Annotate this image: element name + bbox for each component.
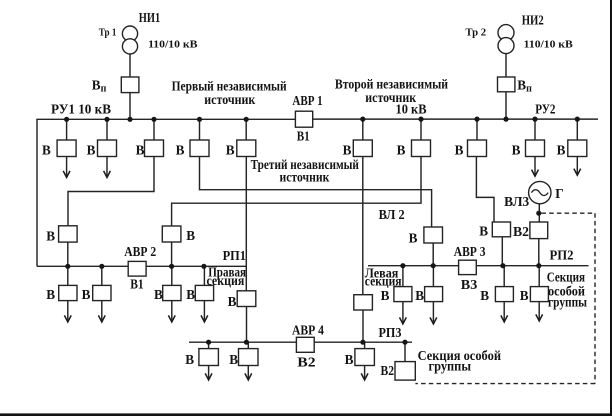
- node dot РП2 feeder1: [400, 263, 405, 268]
- svg-text:Вп: Вп: [92, 78, 107, 95]
- wire РП3 feeder 2: [247, 342, 249, 379]
- node dot feeder1 РУ2: [360, 117, 365, 122]
- svg-text:110/10 кВ: 110/10 кВ: [148, 39, 198, 51]
- page bottom rule: [0, 413, 612, 416]
- svg-text:РП3: РП3: [379, 325, 402, 340]
- arrowhead feeder5 РУ2: [574, 169, 581, 176]
- wire generator Г to В2 breaker: [538, 204, 540, 222]
- bus РП1: [37, 265, 247, 267]
- wire transformer Тр1 to Вп1: [129, 54, 131, 77]
- bus РП3: [189, 341, 412, 343]
- svg-text:НИ2: НИ2: [522, 13, 544, 28]
- svg-text:В: В: [46, 229, 55, 244]
- node dot feeder1 РУ1: [64, 117, 69, 122]
- breaker В РП2 feeder4: [530, 287, 548, 302]
- svg-text:источник: источник: [204, 92, 255, 107]
- breaker В on line ВЛ1 above РП2: [424, 227, 443, 243]
- breaker В feeder2 РУ2: [412, 140, 431, 157]
- wire feeder 4 РУ2 outgoing: [534, 119, 536, 175]
- wire feeder 4 РУ1 to line ВЛ1 toward РП2: [200, 119, 432, 227]
- wire feeder 3 РУ1 down to link: [68, 119, 154, 226]
- svg-text:В: В: [479, 224, 488, 239]
- wire feeder 2 РУ1: [106, 119, 108, 140]
- svg-text:группы: группы: [548, 295, 587, 310]
- svg-text:В3: В3: [461, 277, 478, 292]
- bus РП2: [368, 265, 589, 267]
- node dot Вп2/РУ2: [503, 117, 508, 122]
- node dot РП1 supply right: [169, 264, 174, 269]
- svg-text:АВР 1: АВР 1: [292, 93, 322, 108]
- wire feeder 1 РУ1: [66, 119, 68, 140]
- breaker АВР2 (В1): [128, 261, 146, 276]
- wire through breaker to РП3 bus: [246, 307, 248, 343]
- generator sine symbol: [531, 190, 548, 196]
- transformer Тр2 (НИ2 110/10 кВ): [498, 25, 514, 41]
- breaker В feeder3 РУ2: [468, 140, 487, 157]
- dashed boundary bottom to В2 РП3: [415, 383, 595, 385]
- dashed boundary right side: [594, 213, 596, 383]
- breaker В between РП1 and РП3: [237, 291, 256, 307]
- svg-text:В: В: [512, 142, 521, 157]
- svg-text:Тр 1: Тр 1: [99, 27, 117, 39]
- breaker В РП3 feeder3: [355, 349, 375, 366]
- svg-text:10 кВ: 10 кВ: [396, 101, 427, 116]
- wire РП1 feeder 3: [171, 266, 173, 321]
- breaker В2 of generator line ВЛ3: [530, 222, 548, 239]
- svg-text:В: В: [381, 288, 390, 303]
- node dot feeder5 РУ2: [575, 117, 580, 122]
- svg-text:РУ2: РУ2: [535, 102, 556, 117]
- wire transformer Тр2 to Вп2: [505, 53, 507, 77]
- arrowhead РП1 feeder3: [168, 315, 175, 322]
- svg-text:110/10 кВ: 110/10 кВ: [524, 39, 574, 51]
- wire РП1 feeder 4: [203, 266, 205, 321]
- node dot Вп1/РУ1: [127, 117, 132, 122]
- breaker В feeder4 РУ1: [190, 140, 209, 157]
- breaker В feeder5 РУ2: [568, 140, 587, 157]
- svg-text:В: В: [455, 142, 464, 157]
- bus РУ2: [313, 118, 598, 120]
- wire feeder 3 РУ2 jog to breaker above РП2: [476, 119, 494, 222]
- svg-text:В: В: [176, 142, 185, 157]
- arrowhead РП1 feeder4: [201, 315, 208, 322]
- svg-text:В: В: [415, 288, 424, 303]
- wire breaker to РП2 bus: [501, 237, 503, 266]
- breaker В feeder1 РУ1: [57, 140, 76, 157]
- svg-text:секция: секция: [365, 273, 402, 288]
- svg-text:В2: В2: [513, 224, 529, 239]
- node dot РП3 special feeder: [402, 340, 407, 345]
- wire outgoing feeder 2 РУ1: [106, 157, 108, 177]
- svg-text:ВЛ3: ВЛ3: [504, 194, 529, 209]
- svg-text:В1: В1: [297, 128, 310, 143]
- svg-text:ВЛ 2: ВЛ 2: [379, 207, 405, 222]
- wire ВЛ1 breaker to РП2 bus: [432, 243, 434, 266]
- breaker В feeder2 РУ1: [98, 140, 117, 157]
- breaker В feeder4 РУ2: [526, 140, 545, 157]
- arrowhead feeder1 РУ1: [63, 171, 70, 178]
- wire РП3 feeder 3: [364, 342, 366, 379]
- wire feeder 1 РУ2 down to РП3: [362, 119, 364, 295]
- generator Г: [529, 181, 551, 203]
- svg-text:Тр 2: Тр 2: [465, 27, 486, 39]
- node dot feeder4 РУ1: [197, 117, 202, 122]
- arrowhead РП3 feeder1: [205, 373, 212, 380]
- arrowhead РП2 feeder3: [501, 315, 508, 322]
- breaker В РП2 feeder2: [425, 287, 443, 302]
- breaker Вп2: [498, 77, 515, 92]
- svg-text:В: В: [136, 142, 145, 157]
- wire РП1 feeder 2: [101, 266, 103, 321]
- svg-text:Секция: Секция: [547, 269, 585, 284]
- breaker В РП1 feeder3: [163, 285, 181, 300]
- node dot РП3 supply left: [244, 340, 249, 345]
- svg-text:АВР 3: АВР 3: [454, 244, 486, 259]
- svg-text:В: В: [228, 294, 237, 309]
- breaker В РП1 feeder1: [59, 285, 77, 300]
- wire В2 breaker to bus РП2: [538, 239, 540, 266]
- arrowhead feeder4 РУ2: [532, 170, 539, 177]
- breaker АВР4 (В2): [296, 337, 314, 352]
- wire lower breaker to РП3 bus: [362, 310, 364, 342]
- arrowhead РП2 feeder1: [400, 317, 407, 324]
- svg-text:источник: источник: [280, 169, 330, 184]
- svg-text:В: В: [480, 288, 489, 303]
- node dot feeder5 РУ1: [244, 117, 249, 122]
- breaker АВР1 (В1): [295, 111, 312, 127]
- breaker В РП3 feeder2: [239, 349, 259, 366]
- svg-text:В: В: [520, 288, 529, 303]
- node dot РП2 supply right: [500, 263, 505, 268]
- svg-text:В: В: [557, 142, 566, 157]
- svg-text:В2: В2: [381, 363, 395, 378]
- breaker Вп1: [121, 77, 139, 93]
- node dot feeder2 РУ2: [418, 117, 423, 122]
- node dot РП3 supply right: [360, 340, 365, 345]
- arrowhead РП2 feeder2: [430, 317, 437, 324]
- wire РП3 special-group feeder to В2: [404, 342, 406, 361]
- node dot РП1 feeder4: [201, 264, 206, 269]
- svg-text:В: В: [345, 352, 354, 367]
- wire Вп2 to bus РУ2: [505, 92, 507, 119]
- svg-text:В: В: [409, 230, 418, 245]
- arrowhead РП1 feeder1: [64, 315, 71, 322]
- wire РП2 feeder 1: [402, 266, 404, 323]
- breaker АВР3 (В3): [459, 260, 477, 274]
- breaker В РП1 feeder2: [93, 285, 111, 300]
- svg-text:В: В: [229, 352, 238, 367]
- arrowhead РП3 feeder3: [361, 373, 368, 380]
- svg-text:Г: Г: [555, 186, 563, 201]
- transformer Тр1 (НИ1 110/10 кВ): [122, 26, 137, 41]
- breaker В РП2 feeder1: [394, 287, 412, 302]
- svg-text:В: В: [397, 142, 406, 157]
- arrowhead РП3 feeder2: [245, 373, 252, 380]
- svg-text:В: В: [46, 287, 55, 302]
- node dot feeder3 РУ1: [151, 117, 156, 122]
- wire feeder 2 РУ2 to link toward РП1: [172, 119, 421, 226]
- breaker В above РП2 from РУ2 feeder3: [492, 222, 510, 237]
- svg-text:В: В: [82, 287, 91, 302]
- svg-text:РП2: РП2: [550, 248, 574, 263]
- svg-text:АВР 4: АВР 4: [292, 322, 324, 337]
- node dot feeder3 РУ2: [474, 117, 479, 122]
- node dot РП1 supply left: [65, 264, 70, 269]
- wire feeder 5 РУ2 outgoing: [576, 119, 578, 174]
- page right border: [610, 0, 612, 416]
- breaker В РП3 feeder1: [199, 349, 219, 366]
- svg-text:РП1: РП1: [223, 248, 246, 263]
- wire РП1 feeder 1: [67, 266, 69, 321]
- bus РУ1 with left drop wire to РП1: [37, 119, 295, 266]
- node dot РП1 feeder2: [99, 264, 104, 269]
- wire link breaker to РП1 bus: [171, 242, 173, 266]
- node dot РП3 feeder1: [206, 340, 211, 345]
- breaker В on link to РП1 left: [59, 226, 78, 242]
- svg-text:В: В: [87, 142, 96, 157]
- svg-text:В: В: [186, 287, 195, 302]
- svg-text:В: В: [185, 352, 194, 367]
- breaker В on link from РУ2 feeder2: [162, 226, 181, 242]
- wire РП2 feeder 2: [432, 266, 434, 323]
- breaker В feeder5 РУ1: [237, 140, 256, 157]
- arrowhead РП2 feeder4: [536, 314, 543, 321]
- node dot generator tap: [536, 211, 541, 216]
- arrowhead РП1 feeder2: [98, 315, 105, 322]
- wire outgoing feeder 1 РУ1: [66, 157, 68, 177]
- wire РП2 feeder 3: [503, 266, 505, 321]
- wire Вп1 to bus РУ1: [129, 93, 131, 120]
- node dot feeder2 РУ1: [104, 117, 109, 122]
- svg-text:В: В: [226, 142, 235, 157]
- wire РП2 feeder 4: [538, 266, 540, 320]
- svg-text:В: В: [154, 287, 163, 302]
- svg-text:секция: секция: [207, 273, 245, 288]
- svg-text:В: В: [186, 228, 195, 243]
- svg-text:РУ1 10 кВ: РУ1 10 кВ: [51, 101, 111, 116]
- breaker В РП2 feeder3: [495, 287, 513, 302]
- breaker В2 РП3 special group: [395, 362, 415, 381]
- svg-text:Первый независимый: Первый независимый: [172, 78, 287, 93]
- breaker on РУ2 feeder1 line above РП3: [354, 295, 373, 310]
- node dot РП2 generator supply: [536, 263, 541, 268]
- wire РП3 feeder 1: [208, 342, 210, 379]
- svg-text:В1: В1: [130, 277, 143, 292]
- svg-text:НИ1: НИ1: [139, 10, 160, 25]
- svg-text:группы: группы: [429, 358, 472, 373]
- node dot РП2 supply ВЛ1: [431, 263, 436, 268]
- wire feeder 5 РУ1 straight down to РП1/РП3: [245, 119, 247, 290]
- svg-text:В2: В2: [297, 355, 316, 370]
- breaker В РП1 feeder4: [195, 285, 213, 300]
- breaker В feeder1 РУ2: [353, 140, 372, 157]
- arrowhead feeder2 РУ1: [104, 171, 111, 178]
- dashed tie from generator tap to special group boundary: [542, 212, 596, 214]
- svg-text:АВР 2: АВР 2: [124, 244, 156, 259]
- svg-text:В: В: [343, 142, 352, 157]
- svg-text:Вп: Вп: [517, 78, 532, 95]
- breaker В feeder3 РУ1: [145, 140, 164, 157]
- wire link to РП1 left supply: [67, 242, 69, 266]
- svg-text:В: В: [42, 142, 51, 157]
- node dot feeder4 РУ2: [532, 117, 537, 122]
